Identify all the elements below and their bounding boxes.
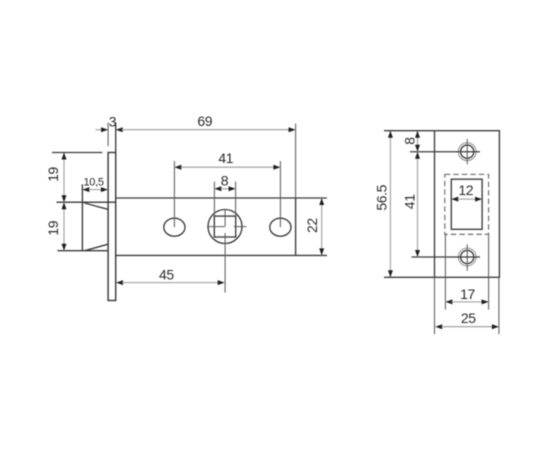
svg-text:10,5: 10,5: [83, 176, 103, 188]
strike plate latch hole: [451, 179, 482, 229]
strike plate outline: [435, 131, 500, 278]
svg-text:56.5: 56.5: [374, 184, 390, 210]
hole right: [270, 218, 291, 236]
latch body: [116, 197, 327, 199]
svg-text:22: 22: [304, 218, 320, 233]
dimension 3 (faceplate thickness): [96, 123, 116, 153]
dimension 41 (screw hole spacing): [415, 152, 420, 257]
dimension 17 (opening width): [445, 234, 488, 309]
svg-text:19: 19: [45, 167, 61, 182]
faceplate (side view): [108, 153, 116, 301]
spindle square hole: [214, 216, 235, 237]
screw hole bottom: [412, 244, 481, 270]
spindle centerlines: [207, 226, 225, 228]
svg-text:41: 41: [218, 150, 233, 166]
spindle hub circle: [208, 210, 242, 244]
svg-text:69: 69: [197, 113, 212, 129]
strike plate dashed opening: [445, 174, 489, 234]
dimension 22 (body height): [319, 198, 324, 255]
screw hole top: [410, 139, 480, 164]
svg-text:12: 12: [458, 182, 473, 198]
svg-text:41: 41: [402, 194, 418, 209]
hole left: [164, 218, 185, 236]
svg-text:3: 3: [109, 113, 117, 129]
dimension 25 (plate width): [435, 277, 499, 334]
dimension 10,5 (bolt projection): [82, 187, 108, 192]
dimension 56.5 (plate height): [384, 131, 435, 278]
svg-text:25: 25: [461, 310, 476, 326]
dimension 19 lower: [62, 202, 67, 251]
svg-text:19: 19: [45, 220, 61, 235]
svg-text:17: 17: [460, 286, 475, 302]
dimension 41 (hole spacing, body): [174, 161, 280, 227]
dimension 45 (spindle center from plate): [116, 280, 225, 285]
svg-text:8: 8: [221, 173, 229, 189]
latch bolt: [81, 184, 83, 250]
dimension 12 (hole width): [451, 197, 482, 202]
dimension 8 (square hole, body): [214, 182, 235, 217]
svg-text:8: 8: [402, 137, 418, 145]
dimension 8 (screw hole from top): [415, 131, 420, 152]
dimension 19 upper: [52, 153, 102, 251]
svg-text:45: 45: [159, 267, 174, 283]
dimension 69 (body length): [116, 124, 296, 199]
